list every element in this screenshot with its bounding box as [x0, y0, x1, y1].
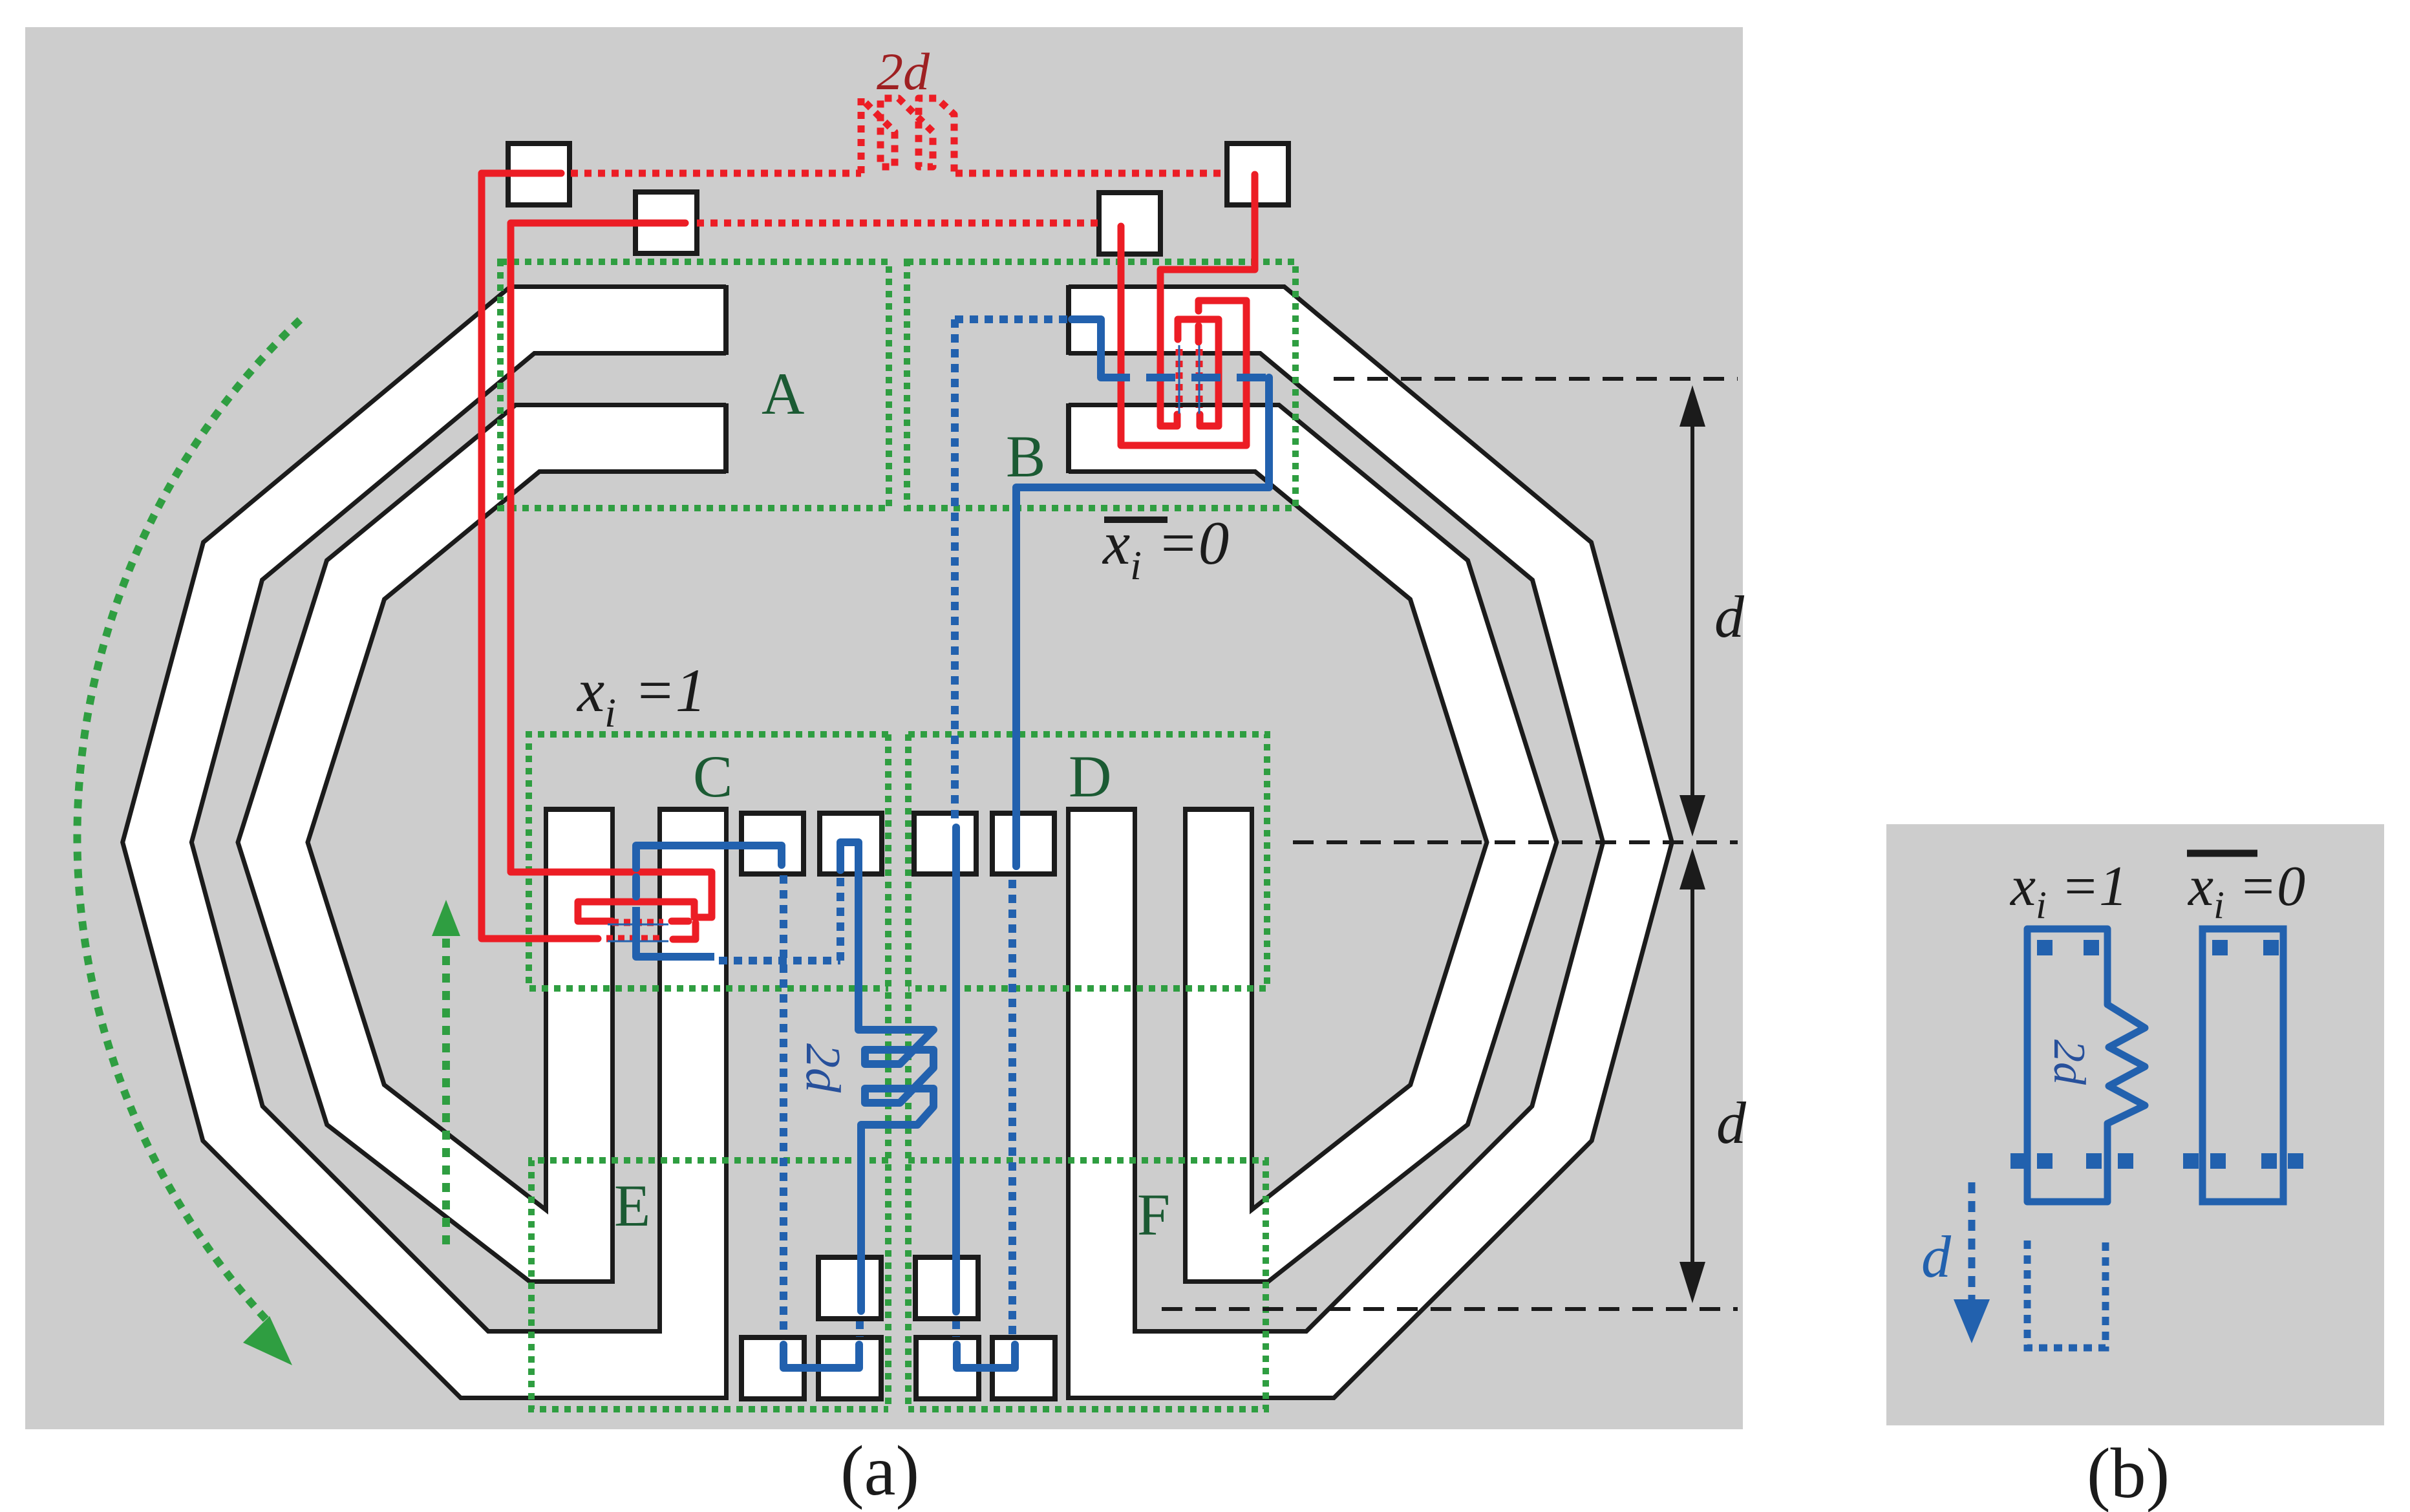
- right outer ring band: [1069, 320, 1637, 1365]
- blue coil 2d chain: [840, 842, 933, 1311]
- blue dashed arrow d: [1968, 1182, 1976, 1332]
- blue C gap vertical and bottom: [636, 907, 714, 957]
- vertical green arrowhead: [432, 900, 460, 936]
- red dotted B verticals: [1179, 349, 1199, 408]
- svg-text:B: B: [1006, 423, 1045, 489]
- red dotted C weave row2: [606, 935, 663, 942]
- left inner ring band: [273, 438, 726, 1248]
- panel (b) background: [1886, 824, 2384, 1425]
- blue cell xi=1 with resistor notch: [2027, 929, 2145, 1202]
- blue stub C: [632, 877, 640, 897]
- red dotted C weave row1: [612, 919, 663, 926]
- svg-text:(b): (b): [2087, 1434, 2170, 1512]
- arrowhead d2 top: [1680, 848, 1705, 889]
- blue dotted D pad2 to F pad2: [1008, 880, 1016, 1336]
- pad F low 2: [992, 1337, 1055, 1399]
- region C box: [529, 734, 888, 988]
- svg-text:xi =1: xi =1: [576, 656, 706, 736]
- d labels: [1714, 584, 1747, 1156]
- svg-text:D: D: [1069, 743, 1111, 809]
- blue dotted joint F: [952, 1321, 960, 1337]
- svg-text:C: C: [693, 743, 732, 809]
- arc: [77, 320, 300, 1324]
- red hook C: [673, 923, 696, 939]
- thin blue pass-through lines: [608, 345, 1199, 941]
- blue solid D pad1 to F upper pad: [952, 827, 960, 1312]
- right inner ring band: [1069, 438, 1522, 1248]
- red capsule C: [672, 918, 688, 925]
- red dotted P2 to P3: [697, 220, 1099, 227]
- blue dotted B top corner: [955, 315, 1068, 323]
- red dotted coil to P4: [955, 170, 1227, 177]
- pad C1: [741, 813, 804, 874]
- svg-text:2d: 2d: [2044, 1039, 2094, 1085]
- blue dashed B: [1101, 374, 1269, 381]
- red wire P2 down to C weave: [511, 223, 712, 921]
- dim line d lower: [1690, 860, 1694, 1291]
- arrowhead d1 top: [1680, 385, 1705, 427]
- green arc arrow: [77, 320, 446, 1324]
- pad P4: [1227, 144, 1288, 205]
- center corridor verticals: [888, 734, 908, 1409]
- red hook B left to P4: [1160, 175, 1255, 426]
- svg-text:d: d: [1716, 1090, 1747, 1156]
- region labels: [614, 361, 1170, 1248]
- pad P2: [635, 192, 697, 253]
- blue C top bracket: [636, 846, 782, 868]
- blue dotted U (b): [2027, 1240, 2106, 1348]
- svg-text:A: A: [762, 361, 804, 427]
- pad E upper: [818, 1257, 881, 1319]
- pad P3: [1099, 193, 1160, 254]
- blue solid B down to D pad2: [1016, 378, 1269, 866]
- dimension arrows: [1690, 398, 1694, 1291]
- red wire P1 left-down to C: [482, 173, 598, 939]
- arrowhead d1 bottom: [1680, 795, 1705, 836]
- pad E low 1: [741, 1337, 804, 1399]
- svg-text:(a): (a): [840, 1431, 919, 1510]
- blue U in F low pads: [957, 1345, 1015, 1368]
- thin blue line B left: [1178, 345, 1180, 414]
- dashed line bottom: [1162, 1307, 1738, 1311]
- dashed line middle: [1293, 840, 1738, 844]
- svg-text:d: d: [1714, 584, 1745, 650]
- dim line d upper: [1690, 398, 1694, 824]
- arc arrowhead: [243, 1316, 292, 1365]
- arrowhead d2 bottom: [1680, 1262, 1705, 1303]
- region D box: [908, 734, 1267, 988]
- red dotted coil 2d: [861, 98, 954, 173]
- red wire P3 down B weave: [1121, 226, 1246, 445]
- panel (a) background: [25, 27, 1743, 1429]
- blue solid B corner: [1072, 319, 1101, 378]
- svg-text:xi =0: xi =0: [2187, 855, 2305, 926]
- svg-text:2d: 2d: [877, 42, 930, 101]
- blue cell xibar=0: [2202, 929, 2283, 1202]
- pad D1: [914, 813, 976, 874]
- pad E low 2: [818, 1337, 881, 1399]
- svg-text:xi =1: xi =1: [2009, 855, 2127, 926]
- blue dotted joint E: [856, 1321, 864, 1337]
- vertical arrow line: [442, 939, 450, 1248]
- dashed line top: [1334, 377, 1738, 381]
- red dotted P1 to coil: [571, 170, 861, 177]
- svg-text:E: E: [614, 1173, 650, 1239]
- red stub B center: [1195, 326, 1202, 342]
- blue U in E low pads: [784, 1345, 859, 1368]
- thin blue line C row1: [608, 924, 668, 926]
- pad F low 1: [916, 1337, 979, 1399]
- pad P1: [508, 144, 570, 205]
- region A box: [500, 262, 889, 508]
- thin blue line B right: [1199, 345, 1200, 414]
- pad D2: [992, 813, 1054, 874]
- pad F upper: [915, 1257, 978, 1319]
- blue squares: [2010, 940, 2303, 1169]
- left outer ring band: [157, 320, 726, 1365]
- pad C2: [820, 813, 882, 874]
- region F box: [908, 1160, 1266, 1409]
- region E box: [531, 1160, 888, 1409]
- thin blue line C row2: [608, 941, 668, 942]
- red hook B right: [1178, 319, 1219, 426]
- blue dotted C bottom: [719, 957, 840, 964]
- svg-text:2d: 2d: [796, 1043, 850, 1093]
- svg-text:F: F: [1137, 1182, 1170, 1248]
- band end caps: [544, 285, 1254, 809]
- region B box: [907, 262, 1296, 508]
- svg-text:d: d: [1921, 1224, 1952, 1290]
